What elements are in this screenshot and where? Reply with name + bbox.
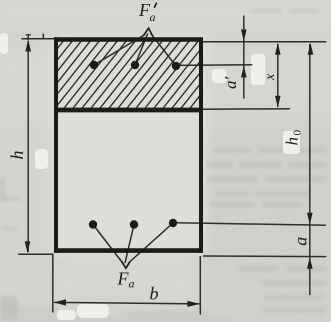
svg-text:h: h	[7, 151, 27, 160]
svg-text:a: a	[129, 277, 135, 291]
svg-text:a: a	[290, 237, 310, 246]
svg-text:h: h	[283, 137, 302, 146]
svg-text:0: 0	[292, 130, 304, 136]
svg-text:x: x	[263, 73, 278, 81]
svg-text:b: b	[150, 284, 159, 304]
svg-text:a: a	[150, 10, 156, 24]
svg-text:a′: a′	[221, 77, 240, 90]
